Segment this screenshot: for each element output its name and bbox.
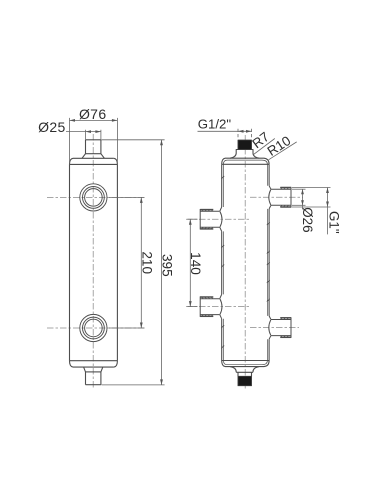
svg-text:Ø25: Ø25 bbox=[38, 119, 66, 135]
lower left port thread crests bbox=[200, 297, 213, 316]
leader R10 bbox=[269, 142, 297, 160]
dimension 395 bbox=[102, 140, 165, 385]
left view top port horizontal centerline bbox=[47, 196, 145, 198]
lower right port centerline bbox=[250, 327, 299, 329]
right view bottom dome outer bbox=[222, 361, 269, 377]
svg-text:Ø26: Ø26 bbox=[300, 207, 315, 232]
left view top dome and neck bbox=[70, 140, 118, 165]
right view body shell inner walls bbox=[223, 164, 267, 360]
svg-text:140: 140 bbox=[188, 252, 203, 275]
svg-text:395: 395 bbox=[160, 254, 175, 277]
right view vertical centerline bbox=[244, 135, 246, 389]
dimension G1/2 bbox=[198, 129, 252, 139]
right view top dome inner line bbox=[223, 160, 267, 164]
shell section break ticks right wall bbox=[267, 222, 270, 301]
dimension D25 arrows bbox=[86, 130, 101, 133]
dimension G1" bbox=[292, 188, 331, 235]
dimension 210 bbox=[109, 197, 144, 328]
shell section break ticks left wall bbox=[221, 176, 224, 348]
svg-text:Ø76: Ø76 bbox=[79, 106, 107, 122]
left view body shell sides bbox=[70, 164, 118, 360]
left view vertical centerline bbox=[92, 134, 94, 389]
upper left port thread crests bbox=[200, 210, 213, 229]
top nipple G1/2 threaded black bbox=[238, 140, 252, 149]
right view top dome outer bbox=[222, 150, 269, 165]
upper right port bbox=[269, 186, 291, 209]
upper right port thread crests bbox=[280, 188, 291, 208]
left view top port circle bbox=[80, 184, 107, 211]
bottom nipple threaded black bbox=[238, 376, 252, 385]
lower right port bbox=[269, 316, 291, 339]
svg-text:210: 210 bbox=[140, 251, 155, 274]
svg-text:G1": G1" bbox=[326, 211, 341, 234]
upper right port centerline bbox=[250, 196, 303, 198]
lower left port centerline bbox=[186, 306, 250, 308]
left view bottom dome and drain pipe bbox=[70, 361, 118, 385]
svg-text:G1/2": G1/2" bbox=[198, 116, 232, 131]
dimension D25 extension lines bbox=[66, 130, 101, 140]
right view bottom dome inner line bbox=[223, 361, 267, 365]
dimension D26 bbox=[292, 189, 306, 209]
left view bottom port horizontal centerline bbox=[47, 327, 145, 329]
dimension D76 arrows bbox=[70, 119, 118, 122]
leader R7 bbox=[254, 139, 275, 155]
dimension 140 bbox=[187, 219, 197, 306]
right view body shell outer walls bbox=[222, 164, 269, 360]
dimension D76 extension lines bbox=[70, 118, 118, 164]
upper left port bbox=[200, 207, 222, 231]
lower right port thread crests bbox=[280, 318, 291, 338]
lower left port bbox=[200, 294, 222, 318]
upper left port centerline bbox=[186, 218, 250, 220]
left view bottom port circle bbox=[80, 314, 107, 341]
